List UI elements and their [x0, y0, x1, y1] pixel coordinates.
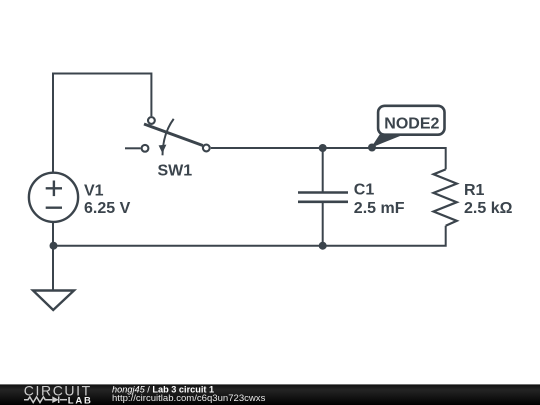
svg-text:6.25 V: 6.25 V — [84, 200, 131, 217]
wire SW1 left stub — [125, 147, 141, 149]
svg-text:V1: V1 — [84, 183, 104, 200]
logo resistor-diode squiggle — [24, 396, 67, 403]
switch SW1 arrowhead — [159, 145, 167, 154]
switch SW1 motion arc — [163, 119, 174, 155]
wire top-left loop V1 top to SW1 top — [53, 74, 151, 173]
node NODE2 pointer — [371, 134, 406, 148]
svg-text:NODE2: NODE2 — [384, 115, 439, 132]
switch SW1 left terminal — [142, 145, 149, 152]
svg-text:SW1: SW1 — [158, 163, 193, 180]
logo diode triangle — [52, 396, 58, 403]
junction dot C1 top — [319, 144, 327, 152]
voltage source V1 — [29, 173, 78, 222]
svg-text:2.5 mF: 2.5 mF — [354, 200, 405, 217]
wire C1 bottom — [322, 202, 324, 246]
junction dot V1 bottom rail — [50, 242, 58, 250]
wire right branch bottom corner — [53, 226, 446, 246]
ground — [33, 291, 74, 311]
switch SW1 right terminal — [203, 145, 210, 152]
wire C1 top — [322, 148, 324, 193]
wire SW1 right to right branch top — [211, 148, 446, 169]
resistor R1 zigzag — [434, 169, 457, 225]
node NODE2 callout box — [378, 106, 444, 135]
switch SW1 top terminal — [148, 117, 155, 124]
capacitor C1 plates — [298, 193, 348, 202]
svg-text:LAB: LAB — [68, 395, 93, 405]
svg-text:http://circuitlab.com/c6q3un72: http://circuitlab.com/c6q3un723cwxs — [112, 393, 266, 404]
svg-text:R1: R1 — [464, 182, 485, 199]
svg-text:2.5 kΩ: 2.5 kΩ — [464, 200, 513, 217]
junction dot NODE2 — [368, 144, 376, 152]
svg-text:C1: C1 — [354, 182, 375, 199]
junction dot C1 bottom — [319, 242, 327, 250]
wire V1 bottom to ground junction — [52, 222, 54, 290]
switch SW1 blade — [144, 124, 203, 146]
